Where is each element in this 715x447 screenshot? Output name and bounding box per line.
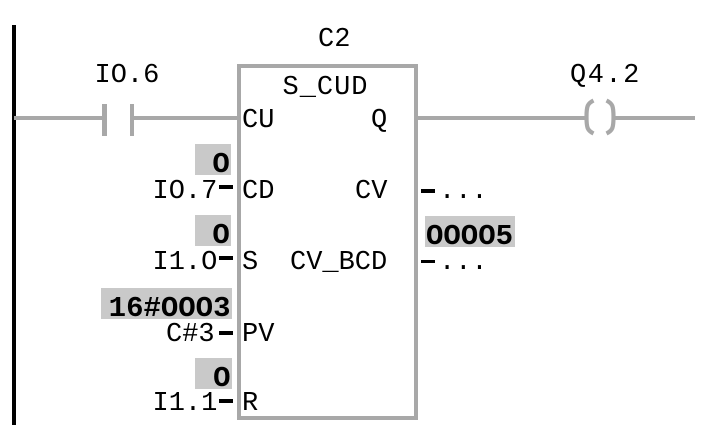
label I0.6: [95, 63, 160, 90]
status value 16#0003 for PV: [101, 288, 232, 319]
stub CV_BCD output: [421, 260, 435, 264]
output coil Q4.2: [575, 92, 630, 142]
status value 0 for S: [195, 215, 231, 246]
pin PV: [242, 322, 274, 349]
contact I0.6 left bar: [102, 104, 107, 137]
operand I1.0: [153, 250, 218, 277]
status value 0 for CD: [195, 144, 231, 175]
operand I0.7: [153, 179, 218, 206]
wire rail to contact: [14, 116, 103, 121]
block name C2: [318, 27, 350, 54]
block title S_CUD: [283, 75, 369, 102]
status value 00005 for CV_BCD: [425, 216, 515, 247]
unassigned CV_BCD output ...: [439, 250, 488, 277]
operand I1.1: [153, 391, 218, 418]
stub I1.0 to S: [219, 256, 234, 260]
wire block Q to coil: [418, 116, 587, 121]
stub CV output: [421, 189, 435, 193]
wire contact to block: [134, 116, 238, 121]
operand C#3: [166, 322, 215, 349]
pin CV: [355, 179, 387, 206]
contact I0.6 right bar: [130, 104, 135, 137]
counter block C2 outline: [237, 64, 419, 420]
pin R: [242, 391, 258, 418]
left power rail: [12, 25, 16, 425]
pin CU: [242, 108, 274, 135]
pin Q: [371, 108, 387, 135]
pin CV_BCD: [290, 250, 387, 277]
status value 0 for R: [195, 358, 232, 389]
stub I1.1 to R: [219, 399, 234, 403]
pin CD: [242, 179, 274, 206]
unassigned CV output ...: [439, 179, 488, 206]
stub I0.7 to CD: [219, 185, 234, 189]
pin S: [242, 250, 258, 277]
wire coil to right: [614, 116, 696, 121]
label Q4.2: [570, 63, 641, 90]
stub C#3 to PV: [219, 331, 234, 335]
